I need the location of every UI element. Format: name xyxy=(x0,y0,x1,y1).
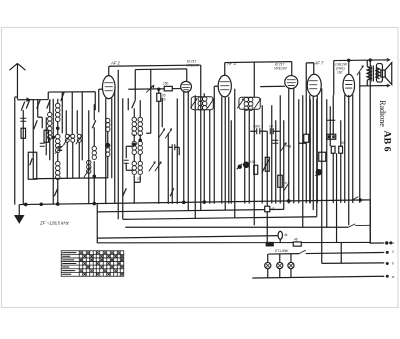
wire xyxy=(146,69,151,133)
capacitor C4 xyxy=(124,160,129,163)
tube V5 pins xyxy=(310,95,318,210)
junction dot xyxy=(52,136,54,138)
wires mid-right verticals xyxy=(262,105,276,243)
lamp leads top xyxy=(268,254,291,263)
dark box on rail5 xyxy=(266,242,273,245)
middle line xyxy=(322,262,385,265)
coil L5 xyxy=(87,160,91,173)
pilot lamp 2 xyxy=(277,262,283,268)
svg-text:AB 6: AB 6 xyxy=(382,131,393,152)
node column A wire xyxy=(22,110,24,205)
IF transformer T2 xyxy=(239,97,260,109)
resistor R7 box xyxy=(278,175,283,187)
variable arrow VC6 xyxy=(280,142,287,152)
top bus line V1 to corner xyxy=(109,65,201,66)
svg-text:ETL/8W: ETL/8W xyxy=(275,249,289,253)
variable cap VC2 xyxy=(71,134,75,142)
component cluster right of V5 xyxy=(327,134,336,139)
rail 5 xyxy=(97,241,371,243)
band switch wafer box xyxy=(28,152,37,179)
switch blob xyxy=(237,164,243,170)
svg-text:20: 20 xyxy=(137,177,141,181)
tube V1 pins xyxy=(106,98,112,204)
tube V5 (AF 7) xyxy=(307,74,321,96)
switch S1c xyxy=(47,100,51,109)
tuning gang wires xyxy=(62,92,82,135)
pot arrow near V6 xyxy=(357,65,364,75)
variable cap VC3 xyxy=(77,134,81,142)
svg-text:a: a xyxy=(392,241,394,245)
variable cap VC1 xyxy=(65,134,69,142)
ground symbol xyxy=(15,215,23,217)
arrows speaker line ends xyxy=(387,58,390,87)
wire V4 left lead xyxy=(260,85,285,87)
resistor box on x306 xyxy=(304,134,309,142)
svg-text:50: 50 xyxy=(341,141,345,145)
rail 3 xyxy=(125,226,348,228)
terminal dots right xyxy=(386,251,388,253)
capacitor C2 plates xyxy=(40,143,45,146)
pilot lamp 3 xyxy=(288,262,294,268)
svg-text:VRE140: VRE140 xyxy=(186,64,199,68)
wire xyxy=(32,99,34,179)
capacitor C8 xyxy=(272,140,278,143)
capacitor C1 xyxy=(20,118,26,121)
dot junction xyxy=(244,162,249,167)
junction dot xyxy=(93,175,95,177)
tube V4 (detector) xyxy=(285,76,298,89)
variable cap VC5 xyxy=(165,128,172,138)
svg-text:b: b xyxy=(392,262,394,266)
wires transformer xyxy=(367,60,370,242)
terminal a drop xyxy=(370,200,384,243)
svg-text:m: m xyxy=(284,181,287,185)
wires oscillator xyxy=(133,108,135,204)
resistor R1 box xyxy=(21,128,26,138)
switch S1e xyxy=(21,102,25,111)
table row label strokes xyxy=(62,253,76,275)
tube V6 (output) xyxy=(343,74,355,96)
wire speaker bottom xyxy=(360,85,390,87)
resistor R8 box xyxy=(331,146,335,153)
jack dark xyxy=(316,170,321,175)
wire grid left xyxy=(99,89,103,112)
resistor R5 box xyxy=(254,165,258,174)
wire xyxy=(127,98,129,110)
wires below T1 xyxy=(204,93,210,204)
grid resistor R3 box xyxy=(157,93,161,101)
junction dot xyxy=(57,127,59,129)
lamp leads bottom xyxy=(268,269,291,278)
switch S2 xyxy=(34,120,38,129)
switch on bus right xyxy=(352,197,358,200)
rail 1 xyxy=(97,209,284,212)
top bus V3 to V4 xyxy=(225,61,292,64)
wire h-line to V2 xyxy=(128,88,181,91)
table X marks xyxy=(80,251,123,275)
inner top line xyxy=(135,68,187,71)
rail 4 xyxy=(97,236,280,239)
wire grid left xyxy=(214,86,218,204)
switch arrows near bus xyxy=(54,188,174,196)
volume pot R6 xyxy=(265,157,269,171)
svg-text:4k: 4k xyxy=(284,233,288,237)
wire V2 top stub xyxy=(186,69,188,82)
coil L0b xyxy=(48,126,52,139)
wire V3 top xyxy=(224,63,226,76)
tube V1 (AF 2) xyxy=(102,76,115,99)
switch on rail 3 xyxy=(348,224,370,227)
wire xyxy=(230,120,232,203)
antenna xyxy=(16,64,18,100)
wire xyxy=(94,92,96,111)
switch S1a xyxy=(26,100,30,109)
coil L4 xyxy=(92,146,96,159)
core bars xyxy=(372,66,374,82)
output transformer secondary xyxy=(376,68,379,79)
bottom wire of tuner xyxy=(33,178,108,179)
wires below gang xyxy=(67,134,82,178)
trimmer C3 xyxy=(57,147,62,151)
wires xyxy=(327,95,341,227)
terminal a xyxy=(386,242,388,244)
svg-text:48: 48 xyxy=(271,207,275,211)
tube V2 (mixer) xyxy=(181,81,192,92)
svg-text:4000: 4000 xyxy=(253,125,260,129)
bottom line w xyxy=(252,276,384,278)
resistor R9 box xyxy=(339,146,343,153)
wire xyxy=(49,100,51,161)
top bus speaker xyxy=(334,59,390,62)
wires T2 xyxy=(245,62,255,225)
resistor box on wire x267 xyxy=(265,206,270,212)
long verticals mid-left xyxy=(115,70,123,220)
coil L9 xyxy=(132,141,136,154)
svg-text:VRE160: VRE160 xyxy=(274,67,287,71)
wire tube V1 top xyxy=(108,66,110,75)
svg-text:u: u xyxy=(392,250,394,254)
resistor R2 box xyxy=(44,130,49,142)
variable cap VC4 xyxy=(158,128,165,138)
switch S3 xyxy=(92,120,96,128)
wire xyxy=(107,131,109,178)
coil L10 xyxy=(138,141,142,154)
svg-text:Radione: Radione xyxy=(378,100,387,127)
switch arrow S6 xyxy=(284,182,289,190)
ground bus xyxy=(19,200,370,205)
svg-text:100: 100 xyxy=(250,160,256,164)
arrow on line xyxy=(146,85,154,92)
coil L7 xyxy=(132,117,137,135)
wire stub xyxy=(126,146,134,158)
speaker xyxy=(376,63,391,85)
svg-text:48: 48 xyxy=(294,238,298,242)
tube V4 pins xyxy=(289,88,294,203)
table xyxy=(61,251,124,277)
coil L1 xyxy=(55,103,60,121)
lamp feed line xyxy=(268,252,384,254)
wire antenna lead xyxy=(17,92,95,100)
svg-text:ZF ~128,5 kHz: ZF ~128,5 kHz xyxy=(39,221,70,226)
pilot lamp 1 xyxy=(265,262,271,268)
coil L11b xyxy=(138,161,142,174)
wire xyxy=(337,153,342,263)
wire xyxy=(321,88,323,263)
tube V3 pins xyxy=(222,97,229,211)
svg-text:0: 0 xyxy=(59,143,61,147)
svg-text:150: 150 xyxy=(163,82,169,86)
switch S4 xyxy=(84,167,91,177)
capacitor C7 xyxy=(270,128,273,134)
coil L0a xyxy=(48,112,52,125)
wire coil column xyxy=(57,99,59,204)
tube V6 pins xyxy=(345,95,353,226)
wires xyxy=(162,98,168,204)
tube V2 pins xyxy=(184,92,189,211)
junction dots on bus xyxy=(25,203,27,205)
switch S1d xyxy=(61,92,65,101)
switch S5 xyxy=(132,100,136,108)
resistor R4 box xyxy=(164,86,172,91)
svg-text:AF 2: AF 2 xyxy=(110,61,120,66)
wire right of V3 xyxy=(234,89,236,219)
svg-text:4mg: 4mg xyxy=(285,144,291,148)
switch arrow in wafer xyxy=(30,158,33,165)
trimmer arrows low xyxy=(149,161,156,171)
ground drop xyxy=(18,205,20,217)
capacitor C5 xyxy=(172,144,175,150)
box 0,1 xyxy=(319,152,326,161)
coil L8 xyxy=(138,117,143,135)
tube V3 (AF 3) xyxy=(218,75,231,97)
svg-text:AF 3: AF 3 xyxy=(226,61,236,66)
coil L6 xyxy=(106,118,110,131)
fuse F1 xyxy=(278,231,282,239)
coil L3 xyxy=(55,161,60,179)
wire xyxy=(52,99,54,204)
wires verticals xyxy=(172,98,177,203)
rail 2 xyxy=(123,217,317,220)
coil L2 xyxy=(55,134,60,152)
svg-text:mF: mF xyxy=(269,125,274,129)
wire V6 top xyxy=(348,60,350,74)
oscillator column wires xyxy=(88,110,90,203)
svg-text:03: 03 xyxy=(162,98,166,102)
wire V5 top xyxy=(306,63,314,75)
switch on lamp line xyxy=(299,250,306,254)
arrow on antenna lead xyxy=(27,98,31,102)
svg-text:AF 7: AF 7 xyxy=(314,61,324,66)
wire left drop xyxy=(15,97,18,205)
capacitor C6 xyxy=(257,128,260,134)
resistor box on rail5 xyxy=(293,242,301,246)
coil L11 xyxy=(132,161,136,174)
switch S1b xyxy=(37,100,41,109)
IF transformer T1 xyxy=(191,97,213,110)
wire column xyxy=(38,99,43,117)
output transformer primary xyxy=(367,67,371,81)
wire xyxy=(42,117,46,155)
coil L6b xyxy=(106,143,110,156)
svg-text:160: 160 xyxy=(337,71,343,75)
